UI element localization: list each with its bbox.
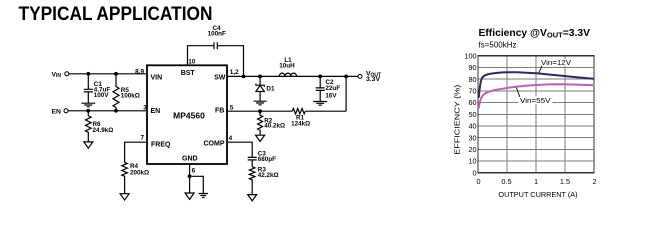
svg-text:100kΩ: 100kΩ — [121, 93, 140, 100]
svg-text:EN: EN — [151, 108, 161, 115]
svg-text:FREQ: FREQ — [151, 141, 171, 148]
capacitor C3 — [248, 151, 276, 167]
svg-text:42.2kΩ: 42.2kΩ — [258, 172, 279, 179]
svg-text:20: 20 — [468, 145, 476, 154]
node C1 top — [86, 72, 90, 76]
svg-text:10: 10 — [188, 59, 196, 66]
ground (triangle) under R6 — [84, 142, 93, 148]
svg-text:0.5: 0.5 — [501, 177, 511, 186]
inductor L1 — [279, 57, 296, 76]
resistor R1 — [291, 109, 310, 128]
svg-text:40: 40 — [468, 122, 476, 131]
ground (triangle) under R3 — [248, 195, 257, 201]
svg-text:Efficiency @VOUT=3.3V: Efficiency @VOUT=3.3V — [479, 28, 591, 40]
svg-text:TYPICAL APPLICATION: TYPICAL APPLICATION — [19, 3, 213, 25]
svg-text:OUTPUT CURRENT (A): OUTPUT CURRENT (A) — [498, 190, 577, 199]
svg-text:24.9kΩ: 24.9kΩ — [93, 127, 114, 134]
ground (triangle) under GND pin — [185, 193, 194, 199]
chart gridlines — [478, 56, 594, 173]
IC U1 MP4560 body — [147, 65, 227, 164]
svg-text:1: 1 — [534, 177, 538, 186]
resistor R3 — [249, 167, 278, 195]
svg-text:EN: EN — [52, 108, 62, 115]
label Vin=12V with leader — [539, 58, 572, 73]
svg-text:SW: SW — [214, 75, 226, 82]
svg-text:EFFICIENCY (%): EFFICIENCY (%) — [453, 85, 462, 155]
node R6 top — [86, 109, 90, 113]
wire EN terminal to pin 3 — [68, 110, 147, 112]
wire GND pin 6 — [190, 164, 204, 193]
svg-text:0: 0 — [476, 177, 480, 186]
pin 1,2 label — [230, 69, 239, 76]
svg-text:2: 2 — [592, 177, 596, 186]
svg-text:60: 60 — [468, 98, 476, 107]
svg-text:70: 70 — [468, 87, 476, 96]
svg-text:30: 30 — [468, 133, 476, 142]
node R2 top — [258, 109, 262, 113]
diode D1 (schottky) — [256, 76, 275, 101]
node C4 right / SW — [242, 75, 246, 79]
svg-text:50: 50 — [468, 110, 476, 119]
chart title — [479, 28, 591, 49]
wire R1 tap vertical — [345, 76, 347, 111]
capacitor C4 — [208, 25, 226, 49]
svg-text:100: 100 — [464, 51, 476, 60]
chart x-axis labels — [476, 177, 596, 186]
curve Vin=12V — [479, 72, 594, 97]
terminal EN — [52, 108, 69, 115]
resistor R4 — [122, 162, 149, 193]
chart frame — [478, 56, 594, 173]
pin 7 label — [140, 135, 144, 142]
svg-text:680pF: 680pF — [258, 156, 276, 163]
terminal VIN — [52, 71, 69, 79]
resistor R6 — [86, 111, 114, 142]
svg-text:VIN: VIN — [52, 71, 62, 79]
svg-text:22uF: 22uF — [325, 85, 340, 92]
wire VIN terminal to pin 8,9 — [69, 73, 147, 75]
svg-text:FB: FB — [215, 107, 224, 114]
pin 5 label — [230, 104, 234, 111]
resistor R2 — [258, 111, 285, 135]
svg-text:124kΩ: 124kΩ — [291, 120, 310, 127]
pin 8,9 label — [135, 69, 144, 76]
svg-text:40.2kΩ: 40.2kΩ — [264, 123, 285, 130]
svg-text:1,2: 1,2 — [230, 69, 239, 76]
chart y-axis labels — [464, 51, 476, 177]
svg-text:Vin=55V: Vin=55V — [520, 96, 551, 105]
svg-text:16V: 16V — [325, 92, 337, 99]
pin 10 label — [188, 59, 196, 66]
svg-text:200kΩ: 200kΩ — [130, 170, 149, 177]
svg-text:Vin=12V: Vin=12V — [541, 58, 571, 67]
ground (earth) under C2 — [313, 102, 327, 106]
pin 3 label — [143, 104, 147, 111]
heading TYPICAL APPLICATION — [19, 3, 213, 25]
node D1 top — [258, 75, 262, 79]
svg-text:5: 5 — [230, 104, 234, 111]
svg-text:7: 7 — [140, 135, 144, 142]
svg-text:3.3V: 3.3V — [366, 76, 380, 83]
resistor R5 — [113, 74, 140, 111]
node C2 top — [318, 75, 322, 79]
wire BST pin 10 and capacitor C4 loop — [188, 46, 244, 77]
svg-text:D1: D1 — [266, 85, 275, 92]
wire COMP pin 4 to C3 — [228, 142, 252, 157]
svg-text:10: 10 — [468, 157, 476, 166]
ground (earth) right of GND pin — [199, 194, 208, 198]
chart axis titles — [453, 85, 578, 199]
node R5 top — [114, 72, 118, 76]
ground (earth) under D1 — [254, 101, 267, 105]
svg-text:8,9: 8,9 — [135, 69, 144, 76]
curve Vin=55V — [479, 84, 594, 107]
node GND split — [188, 174, 192, 178]
pin 6 label — [192, 167, 196, 174]
svg-text:fs=500kHz: fs=500kHz — [479, 40, 517, 49]
wire FREQ pin 7 to R4 — [125, 142, 147, 162]
svg-text:BST: BST — [181, 70, 196, 77]
svg-text:4: 4 — [229, 135, 233, 142]
ground (triangle) under R2 — [256, 135, 265, 141]
label Vin=55V with leader — [516, 88, 552, 106]
wire FB pin 5 line — [228, 110, 346, 112]
svg-text:90: 90 — [468, 63, 476, 72]
node R5 bottom — [114, 109, 118, 113]
pin 4 label — [229, 135, 233, 142]
svg-text:10uH: 10uH — [279, 62, 295, 69]
svg-text:100nF: 100nF — [208, 30, 226, 37]
node R1 tap — [344, 75, 348, 79]
svg-text:80: 80 — [468, 75, 476, 84]
capacitor C1 — [84, 74, 111, 103]
capacitor C2 — [316, 76, 341, 101]
svg-text:1.5: 1.5 — [560, 177, 570, 186]
terminal VOUT — [358, 70, 381, 83]
wire SW pin 1,2 to VOUT — [228, 75, 358, 77]
svg-text:GND: GND — [182, 156, 198, 163]
svg-text:VIN: VIN — [151, 75, 163, 82]
svg-text:MP4560: MP4560 — [173, 111, 205, 121]
ground (earth) under C1 — [81, 103, 95, 107]
svg-text:6: 6 — [192, 167, 196, 174]
ground (triangle) under R4 — [120, 194, 129, 200]
svg-text:COMP: COMP — [204, 140, 225, 147]
svg-text:100V: 100V — [94, 92, 110, 99]
